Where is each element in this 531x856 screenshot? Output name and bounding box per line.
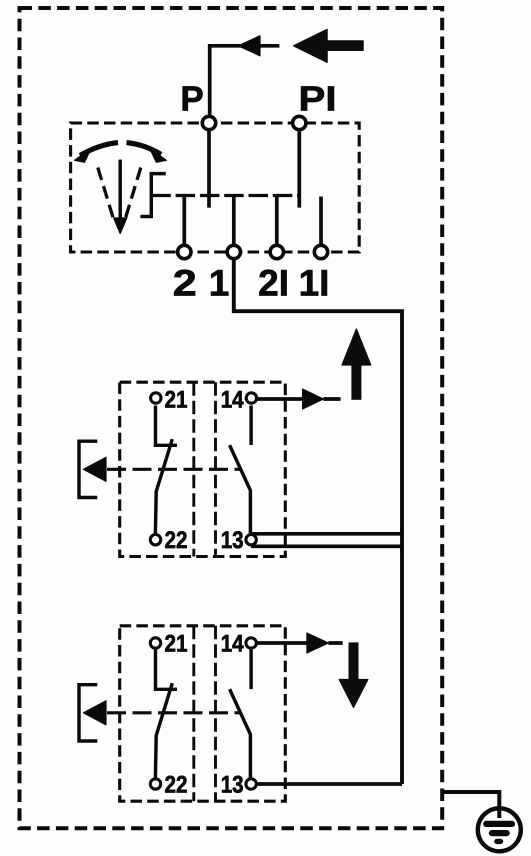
S3 NC contact blade to 22 xyxy=(155,683,172,778)
svg-text:2I: 2I xyxy=(258,263,289,304)
S2 terminal 21 xyxy=(151,393,161,403)
S3 manual actuator arrow (points left) xyxy=(84,701,107,725)
S2 mechanical linkage dashed line (right) xyxy=(214,382,217,556)
switch S2 dashed enclosure xyxy=(120,382,286,556)
terminal P xyxy=(202,116,215,129)
svg-text:13: 13 xyxy=(221,772,244,799)
S2 manual actuator arrow (points left) xyxy=(84,457,107,481)
svg-text:2: 2 xyxy=(173,263,197,304)
wire: S3 terminal 14 output with arrow xyxy=(258,641,343,645)
S3 terminal 21 xyxy=(150,638,160,648)
arc arrowhead right xyxy=(149,148,166,163)
svg-text:1I: 1I xyxy=(299,263,330,304)
terminal 1 xyxy=(227,245,240,258)
ground bar 2 xyxy=(492,830,507,836)
arrowhead on feed wire (points left) xyxy=(238,36,260,56)
terminal 2I xyxy=(270,245,283,258)
S2 NO contact blade to 13 xyxy=(230,445,251,533)
wire: S2 terminal 13 upper link to right side xyxy=(251,532,402,536)
S2 terminal 14 xyxy=(246,393,256,403)
wiper alternate position (dashed, left) xyxy=(98,168,114,220)
terminal PI xyxy=(293,116,306,129)
wire: S2 terminal 13 lower link to right side xyxy=(251,544,402,548)
rotary actuation arc (double-headed curved arrow) xyxy=(80,143,161,156)
S2 actuator dashed line xyxy=(107,468,240,471)
svg-text:14: 14 xyxy=(221,631,245,658)
svg-text:PI: PI xyxy=(299,80,337,119)
S3 NO contact blade to 13 xyxy=(230,689,251,778)
svg-text:14: 14 xyxy=(221,387,245,414)
S2 NO contact fixed lead from 14 xyxy=(249,406,252,446)
wire: enclosure to ground xyxy=(442,792,499,818)
outer dashed enclosure border xyxy=(20,8,443,828)
svg-text:13: 13 xyxy=(221,527,244,554)
S3 NO contact fixed lead from 14 xyxy=(249,650,252,690)
ground bar 3 xyxy=(497,839,501,844)
svg-text:22: 22 xyxy=(165,527,188,554)
svg-text:22: 22 xyxy=(165,772,188,799)
wire: S3 terminal 13 link to right side xyxy=(258,782,403,786)
svg-text:21: 21 xyxy=(165,631,188,658)
svg-text:21: 21 xyxy=(165,387,188,414)
wire: S2 terminal 14 output with arrow xyxy=(258,397,341,401)
S3 terminal 13 xyxy=(246,779,256,789)
wire: drop from terminal P across bus xyxy=(207,131,211,207)
wire: terminal 1 down, right, and down right side xyxy=(234,260,402,784)
S2 mechanical linkage dashed line (left) xyxy=(192,382,195,556)
svg-text:P: P xyxy=(180,80,203,119)
detent bracket xyxy=(140,174,165,217)
wire: bus stub to terminal 2I xyxy=(275,196,279,245)
S3 terminal 14 xyxy=(246,638,256,648)
S3 mechanical linkage dashed line (left) xyxy=(192,626,195,801)
S3 terminal 22 xyxy=(150,779,160,789)
large down arrow xyxy=(349,643,358,680)
S2 manual actuator bracket xyxy=(79,441,97,497)
ground bar 1 xyxy=(486,821,512,827)
wire: drop from terminal PI across bus xyxy=(297,131,301,207)
rotary switch S1 dashed enclosure xyxy=(71,123,360,252)
large actuation arrow (points left) xyxy=(294,30,363,63)
arc arrowhead left xyxy=(75,148,92,163)
wiper alternate position (dashed, right) xyxy=(125,168,141,220)
wire: open stub to terminal 1I xyxy=(319,197,323,245)
wiper actuator arrow (down) xyxy=(118,160,121,222)
terminal 2 xyxy=(178,245,191,258)
S3 actuator dashed line xyxy=(107,711,240,714)
svg-text:1: 1 xyxy=(209,263,230,304)
large up arrow xyxy=(352,364,361,399)
terminal 1I xyxy=(314,245,327,258)
switch S3 dashed enclosure xyxy=(120,626,286,801)
S2 terminal 13 xyxy=(246,535,256,545)
S2 NC contact blade to 22 xyxy=(155,439,172,533)
common bus (dashed linkage line) xyxy=(151,194,299,197)
ground symbol circle xyxy=(478,808,521,851)
wire: feed wire from top elbow down to terminal P xyxy=(210,46,280,115)
wire: bus stub to terminal 1 xyxy=(232,196,236,245)
S2 terminal 22 xyxy=(150,535,160,545)
S3 manual actuator bracket xyxy=(79,685,97,741)
wire: bus stub to terminal 2 xyxy=(182,196,186,245)
S2 NC contact fixed lead from 21 xyxy=(156,406,178,446)
S3 mechanical linkage dashed line (right) xyxy=(214,626,217,801)
S3 NC contact fixed lead from 21 xyxy=(156,650,178,690)
